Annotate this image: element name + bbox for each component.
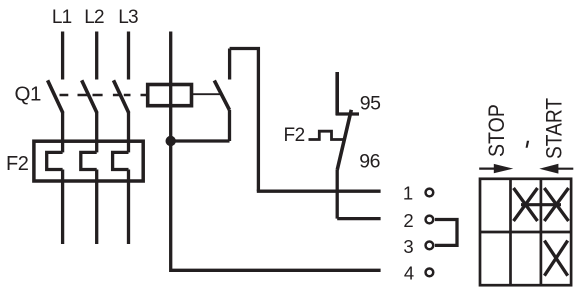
heater element phase 3: [113, 152, 129, 169]
svg-text:F2: F2: [284, 125, 305, 146]
svg-text:1: 1: [403, 182, 413, 203]
junction dot: [166, 136, 176, 146]
X mark row1 col3: [544, 188, 568, 221]
svg-text:3: 3: [403, 236, 413, 257]
switch F2 NC blade: [337, 110, 351, 170]
heater element phase 2: [81, 152, 97, 169]
coil Q1 trip box: [148, 85, 192, 106]
wire line 2: [337, 217, 380, 220]
arrow stop: [479, 164, 513, 173]
wire T3 out: [127, 170, 130, 245]
contact fixed tick: [336, 112, 359, 115]
svg-text:F2: F2: [6, 153, 29, 175]
svg-text:95: 95: [360, 93, 381, 115]
wire F2 contact feed stub: [335, 72, 339, 115]
wire aux fixed terminal: [228, 49, 231, 80]
svg-text:4: 4: [404, 263, 414, 284]
wire pole3 to F2: [127, 113, 130, 153]
wire T2 out: [95, 170, 98, 245]
terminal circle 1: [426, 189, 434, 197]
thermal trip symbol: [309, 131, 345, 139]
wire L1 incoming: [61, 32, 64, 80]
wire dot to aux: [171, 139, 230, 142]
X mark row1 col2: [514, 188, 538, 221]
svg-text:STOP: STOP: [485, 104, 509, 157]
relay F2 overload box: [34, 141, 143, 181]
table grid: [480, 179, 571, 285]
wire control feed vertical: [169, 32, 172, 142]
switch Q1 aux contact blade: [214, 81, 229, 111]
heater element phase 1: [47, 152, 63, 169]
terminal circle 3: [426, 242, 434, 250]
wire L2 incoming: [95, 32, 98, 80]
X mark row2 col3: [544, 241, 567, 276]
switch Q1 pole 3 blade: [114, 80, 129, 113]
arrow start: [539, 164, 573, 174]
wire aux over-route top: [230, 49, 259, 192]
svg-text:L2: L2: [84, 7, 104, 28]
actuator link thin: [192, 93, 221, 95]
mechanical linkage dashed: [60, 94, 147, 97]
switch Q1 pole 1 blade: [48, 80, 63, 113]
svg-text:96: 96: [359, 150, 380, 172]
terminal circle 4: [426, 269, 434, 277]
switch Q1 pole 2 blade: [82, 80, 97, 113]
wire F2 contact out: [336, 170, 339, 219]
svg-text:L3: L3: [118, 7, 138, 28]
jumper wire 2-3: [435, 220, 457, 246]
comma mark: [526, 141, 530, 148]
svg-text:Q1: Q1: [15, 83, 41, 106]
terminal circle 2: [426, 216, 434, 224]
svg-text:2: 2: [403, 210, 413, 231]
wire pole2 to F2: [95, 113, 98, 153]
svg-text:START: START: [542, 98, 567, 159]
wire aux bottom: [228, 110, 231, 141]
wire control down to line4: [171, 141, 381, 270]
tie line between X marks: [521, 203, 561, 206]
wire T1 out: [61, 170, 64, 245]
wire line 1: [257, 190, 381, 193]
svg-text:L1: L1: [52, 7, 72, 28]
wire L3 incoming: [127, 32, 130, 80]
wire pole1 to F2: [61, 113, 64, 153]
